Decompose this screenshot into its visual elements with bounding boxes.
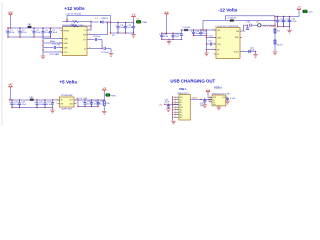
wire top loop bbox=[226, 16, 276, 21]
resistor R4 bbox=[274, 29, 276, 33]
svg-text:10uF: 10uF bbox=[53, 32, 58, 34]
wire flag drop bbox=[166, 15, 168, 33]
power flag USB bbox=[206, 90, 210, 93]
wire J1 gnd rail bbox=[172, 96, 174, 121]
LED D6 bbox=[303, 10, 308, 13]
connector J1 USB box bbox=[179, 95, 190, 121]
power flag +BATT bbox=[9, 13, 13, 16]
capacitor C5 bbox=[49, 28, 52, 37]
wire VOUT bottom bbox=[242, 51, 256, 53]
capacitor C21 bbox=[276, 17, 279, 27]
svg-text:C7 0.1uF: C7 0.1uF bbox=[52, 44, 61, 46]
capacitor C32 bbox=[203, 98, 206, 104]
capacitor C13 on right leg bbox=[132, 23, 135, 34]
sheet left border bbox=[1, 2, 3, 126]
svg-text:ADJ: ADJ bbox=[70, 103, 74, 106]
capacitor C19 shunt bbox=[247, 25, 249, 28]
svg-text:+12V RAW: +12V RAW bbox=[49, 53, 59, 56]
capacitor C27b bbox=[51, 103, 54, 104]
capacitor C24 bbox=[10, 100, 13, 108]
wire top bus bbox=[8, 27, 63, 29]
capacitor C3 bbox=[32, 28, 35, 37]
U1 right pin names bbox=[83, 30, 87, 51]
svg-text:1N5819: 1N5819 bbox=[101, 18, 109, 20]
svg-text:VBUS: VBUS bbox=[192, 98, 198, 100]
capacitor C33 right of U4 bbox=[226, 98, 229, 101]
ground right riser bbox=[273, 52, 277, 55]
diode D1 bbox=[91, 21, 99, 23]
LED D5 PWR bbox=[136, 20, 141, 23]
svg-text:0.1uF: 0.1uF bbox=[230, 98, 236, 100]
U2 pin stubs bbox=[214, 30, 242, 54]
ground C32 bbox=[203, 105, 207, 108]
svg-text:8MHz: 8MHz bbox=[50, 41, 55, 43]
ground bbox=[253, 55, 257, 58]
wire to pin GND bbox=[43, 42, 63, 44]
ground output bbox=[133, 33, 135, 34]
power flag -12V bbox=[297, 8, 301, 11]
ground output bus bbox=[289, 27, 291, 30]
svg-text:PWR: PWR bbox=[142, 22, 147, 24]
resistor R6 bbox=[103, 100, 105, 101]
power flag +BATT 5V bbox=[9, 86, 13, 89]
svg-text:47uF: 47uF bbox=[22, 32, 27, 34]
U4 pin names bbox=[213, 97, 217, 106]
wire SW pin riser bbox=[89, 23, 108, 35]
wire output lower bus bbox=[111, 32, 134, 34]
IC U4 charge controller box bbox=[212, 95, 226, 106]
capacitor C35 bbox=[171, 33, 174, 39]
U4 pin stubs bbox=[209, 97, 228, 102]
svg-text:+5V: +5V bbox=[158, 104, 162, 106]
svg-text:47uF: 47uF bbox=[10, 32, 15, 34]
U3 pin numbers bbox=[56, 99, 78, 105]
capacitor C11 bbox=[116, 23, 119, 34]
wire to pin OSC bbox=[43, 51, 63, 53]
ground 5V bbox=[50, 110, 54, 113]
node dots gnd rail bbox=[42, 40, 43, 50]
capacitor C25 bbox=[18, 100, 21, 108]
J1 pin names bbox=[180, 97, 183, 119]
wire to pin FB bbox=[43, 38, 63, 40]
sheet background bbox=[0, 0, 320, 127]
op-amp U2 inverter IC box bbox=[216, 28, 240, 59]
svg-text:OSC: OSC bbox=[64, 52, 69, 54]
svg-text:OSC: OSC bbox=[217, 44, 222, 46]
diode D3 bbox=[258, 24, 261, 27]
svg-text:C8 10uF: C8 10uF bbox=[93, 36, 101, 38]
svg-text:SWIFT REG: SWIFT REG bbox=[61, 109, 73, 111]
svg-text:FB/SD: FB/SD bbox=[64, 30, 70, 32]
wire gnd rail -12V bbox=[206, 30, 208, 53]
node junction dots top bus bbox=[7, 27, 51, 28]
op-amp U1 regulator IC box bbox=[63, 27, 88, 56]
ground bbox=[204, 53, 208, 56]
svg-text:10uF: 10uF bbox=[36, 32, 41, 34]
capacitor C9 series on LV bbox=[89, 48, 103, 50]
power flag +5V bbox=[102, 89, 106, 92]
resistor R2 lower bbox=[63, 25, 73, 27]
capacitor C34 bbox=[160, 33, 163, 39]
svg-text:VOUT: VOUT bbox=[234, 51, 240, 53]
wire gnd rail bbox=[42, 37, 44, 56]
U1 pin stubs bbox=[61, 30, 90, 52]
svg-text:LT1054 VOLT INVERTER: LT1054 VOLT INVERTER bbox=[216, 26, 239, 28]
U2 pin numbers bbox=[213, 29, 244, 55]
svg-text:+5 Volts: +5 Volts bbox=[59, 79, 77, 84]
ground C31 bbox=[166, 109, 170, 112]
svg-text:47uF: 47uF bbox=[22, 104, 27, 106]
svg-text:GND: GND bbox=[235, 37, 240, 39]
LED D7 bbox=[106, 94, 110, 97]
wire to pin with cap C16 bbox=[207, 37, 217, 39]
wire right riser bbox=[274, 16, 276, 46]
capacitor C27 bbox=[43, 100, 46, 108]
ground U4 bbox=[218, 105, 220, 108]
wire 5V gnd stub bbox=[52, 100, 54, 103]
svg-text:CAP-: CAP- bbox=[64, 46, 69, 49]
capacitor C29 bbox=[90, 100, 93, 107]
svg-text:USB 1: USB 1 bbox=[179, 87, 187, 91]
op-amp U3 regulator box bbox=[60, 97, 75, 107]
ground J1 bbox=[171, 121, 175, 124]
svg-text:-12V: -12V bbox=[297, 7, 302, 9]
svg-text:-12V: -12V bbox=[308, 12, 313, 14]
U3 pin stubs bbox=[58, 100, 77, 104]
wire 5V top bus bbox=[10, 99, 60, 101]
wire output lower bus bbox=[278, 26, 290, 28]
svg-text:10uF: 10uF bbox=[165, 101, 170, 103]
svg-text:USB A RCPT: USB A RCPT bbox=[177, 92, 190, 95]
svg-text:S4: S4 bbox=[180, 117, 182, 119]
wire -12V input bus bbox=[162, 32, 182, 34]
capacitor C31 bbox=[167, 104, 170, 108]
svg-text:USB CHARGING OUT: USB CHARGING OUT bbox=[170, 79, 215, 84]
J1 pin stubs bbox=[174, 97, 179, 117]
wire to pin OSC2 bbox=[207, 49, 217, 51]
wire to pin with capacitor C17 bbox=[207, 43, 210, 45]
inductor L3 bbox=[184, 29, 188, 31]
svg-text:TPS2513 DCP CTRL: TPS2513 DCP CTRL bbox=[212, 93, 232, 95]
svg-text:+5V @ 1.5A: +5V @ 1.5A bbox=[76, 97, 88, 100]
U1 left pin names bbox=[64, 30, 70, 54]
svg-text:-12 Volts: -12 Volts bbox=[218, 7, 238, 12]
capacitor C14 bbox=[192, 30, 195, 36]
svg-text:PWR: PWR bbox=[111, 95, 116, 97]
capacitor C4 bbox=[41, 28, 44, 37]
svg-text:SW: SW bbox=[83, 34, 86, 36]
capacitor C28 bbox=[83, 100, 86, 107]
svg-text:D5: D5 bbox=[137, 19, 139, 21]
svg-text:47uF: 47uF bbox=[164, 36, 169, 38]
capacitor C26 bbox=[35, 100, 38, 108]
inductor FB2 bbox=[30, 99, 34, 101]
wire 5V out lower bus bbox=[78, 106, 98, 108]
wire J1 to U4 bbox=[190, 99, 212, 101]
J1 pin numbers bbox=[175, 96, 176, 118]
svg-text:L2 100uH: L2 100uH bbox=[227, 17, 236, 19]
svg-text:10uF: 10uF bbox=[175, 36, 180, 38]
U2 right pin names bbox=[234, 31, 240, 54]
U3 pin names bbox=[60, 100, 63, 106]
wire lower bus bbox=[8, 36, 51, 38]
capacitor C36 on jog bbox=[181, 30, 183, 34]
wire flag stem bbox=[10, 16, 12, 28]
resistor R5 bbox=[274, 40, 276, 44]
wire input bus bbox=[203, 20, 275, 22]
wire 5V lower bus bbox=[12, 107, 53, 109]
wire U4 third pin bbox=[208, 100, 210, 102]
node junction dots lower bus bbox=[7, 36, 51, 37]
node dots feedback bbox=[66, 21, 91, 27]
resistor R1 on feedback bbox=[63, 21, 73, 23]
capacitor C23 bbox=[288, 17, 291, 27]
wire SW output jog bbox=[242, 25, 248, 31]
wire vertical join to V+ pin bbox=[89, 22, 91, 31]
wire 5V out bus bbox=[74, 99, 104, 101]
wire output cap bus bbox=[275, 16, 299, 18]
svg-text:+BATT: +BATT bbox=[8, 11, 14, 14]
wire USB input bbox=[165, 103, 179, 105]
power flag +12V input bbox=[165, 13, 169, 16]
ground bbox=[109, 54, 113, 57]
ground C33 bbox=[225, 101, 229, 104]
capacitor C18 series bbox=[250, 24, 251, 27]
svg-text:+12 Volts: +12 Volts bbox=[64, 6, 85, 11]
power flag +12V bbox=[132, 15, 136, 18]
svg-text:+BATT: +BATT bbox=[8, 83, 14, 86]
svg-text:+12V @ 750mA: +12V @ 750mA bbox=[65, 13, 81, 16]
inductor L1 bbox=[28, 26, 32, 28]
wire output bus bbox=[111, 22, 134, 24]
svg-text:0.1uF: 0.1uF bbox=[291, 21, 297, 23]
wire left input bus bbox=[182, 29, 217, 31]
svg-text:USB x: USB x bbox=[214, 85, 222, 89]
capacitor C30 bbox=[96, 100, 99, 107]
capacitor C8 series on VO bbox=[89, 39, 95, 41]
wire -12V input lower bus bbox=[162, 38, 182, 40]
svg-text:R5 1K: R5 1K bbox=[277, 45, 283, 47]
U2 left pin names bbox=[217, 30, 223, 56]
node dots output bus bbox=[110, 22, 134, 23]
ground LED bbox=[102, 111, 106, 114]
capacitor C15 bbox=[199, 30, 202, 36]
capacitor C1 bbox=[6, 28, 9, 37]
capacitor C12 bbox=[124, 23, 127, 34]
wire feedback loop top bbox=[67, 16, 111, 23]
grid dots bbox=[0, 0, 320, 127]
capacitor C2 bbox=[18, 28, 21, 37]
inductor L2 bbox=[230, 19, 234, 21]
svg-text:10uF: 10uF bbox=[250, 50, 255, 52]
svg-text:C9 10uF: C9 10uF bbox=[101, 52, 109, 54]
U4 pin numbers bbox=[210, 96, 227, 103]
wire left lower bus bbox=[194, 35, 207, 37]
svg-text:PTR08100W: PTR08100W bbox=[61, 95, 73, 97]
U1 pin numbers bbox=[59, 29, 91, 53]
svg-text:GND: GND bbox=[64, 43, 69, 45]
svg-text:SW: SW bbox=[236, 31, 239, 33]
capacitor C22 bbox=[282, 17, 285, 27]
svg-text:L3 10uH: L3 10uH bbox=[182, 27, 190, 29]
wire to pin CAP- with capacitor C7 bbox=[43, 47, 54, 49]
ground bbox=[41, 56, 45, 59]
ground input filter bbox=[168, 39, 170, 41]
